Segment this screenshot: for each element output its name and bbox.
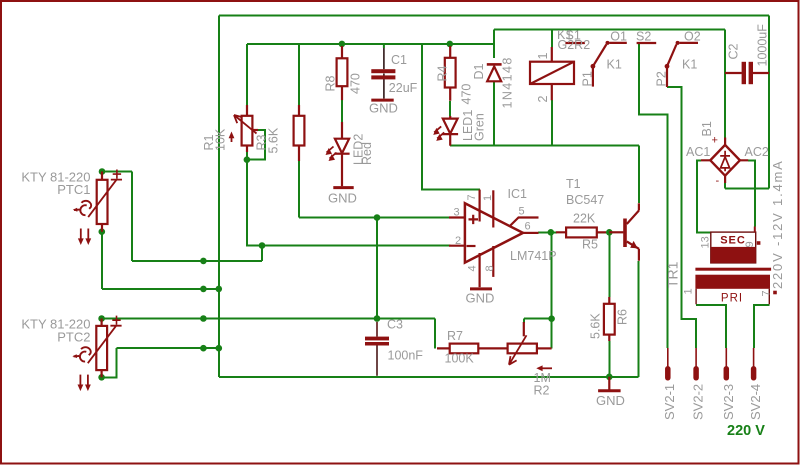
wire PRI pin7 to SV2-4 [754, 305, 769, 348]
wire R5 to base [597, 231, 610, 233]
svg-text:1N4148: 1N4148 [501, 56, 515, 108]
svg-text:C2: C2 [727, 43, 741, 59]
transistor T1 [609, 203, 639, 261]
wire C2 bridge plus vertical [724, 30, 726, 138]
wire opamp pin2 row [262, 245, 451, 247]
svg-text:R2: R2 [534, 384, 550, 398]
svg-text:AC2: AC2 [745, 145, 769, 159]
svg-text:GND: GND [466, 291, 495, 306]
svg-text:7: 7 [466, 194, 478, 200]
LED2 emission arrows [326, 147, 337, 162]
svg-text:R8: R8 [324, 75, 338, 91]
bridge rectifier B1 [701, 138, 748, 184]
svg-text:SEC: SEC [720, 235, 746, 247]
resistor R3 [294, 105, 305, 161]
node PTC1 bottom [99, 228, 106, 235]
wire bridge minus stub [724, 183, 726, 189]
svg-text:SV2-4: SV2-4 [748, 384, 763, 420]
node R1 bottom [244, 156, 251, 163]
svg-text:470: 470 [349, 73, 363, 94]
svg-text:1000uF: 1000uF [756, 24, 770, 67]
svg-text:6: 6 [525, 221, 531, 233]
wire opamp output [538, 231, 557, 233]
svg-text:R7: R7 [447, 329, 463, 343]
wire +12V rail row2 [247, 43, 494, 45]
node wiper junction [548, 315, 555, 322]
wire R6 bottom [608, 341, 610, 377]
svg-text:GND: GND [596, 393, 625, 408]
svg-text:5.6K: 5.6K [267, 127, 281, 153]
resistor R8 [337, 46, 348, 100]
wire feedback row [102, 318, 435, 320]
wire PTC2 bottom jog [102, 348, 117, 377]
node opamp output [548, 229, 555, 236]
svg-text:K1: K1 [682, 58, 697, 72]
resistor R7 [437, 344, 508, 354]
LED LED2 [334, 122, 349, 186]
wire R3 bottom down [298, 161, 300, 218]
wire opamp pin7 supply [422, 44, 480, 190]
svg-text:22uF: 22uF [389, 81, 418, 95]
svg-text:100K: 100K [445, 352, 475, 366]
node row348 b [216, 345, 223, 352]
wire S2 net to SV2-1 [639, 43, 668, 348]
svg-text:R4: R4 [436, 65, 450, 81]
svg-text:2: 2 [536, 96, 550, 103]
svg-text:PTC2: PTC2 [57, 330, 90, 345]
connector pin SV2-2 [695, 348, 697, 378]
ground symbol C1 [371, 99, 393, 102]
wire R1 top [246, 44, 248, 105]
potentiometer R2 [508, 322, 552, 371]
wire wiper row [524, 318, 552, 320]
wire collector vertical [638, 146, 640, 204]
svg-text:T1: T1 [566, 177, 581, 191]
thermistor PTC1 [88, 170, 122, 232]
wire PTC1 bottom down [101, 232, 103, 289]
node PTC2 bottom [98, 374, 105, 381]
node rail R4 [447, 41, 454, 48]
svg-text:22K: 22K [573, 212, 596, 226]
svg-text:GND: GND [369, 101, 398, 116]
svg-text:10K: 10K [214, 128, 228, 151]
PTC1 down arrows [78, 229, 91, 246]
wire AC2 to SEC pin9 [748, 160, 755, 226]
svg-text:220V -12V 1.4mA: 220V -12V 1.4mA [770, 159, 785, 289]
potentiometer R1 [229, 105, 258, 152]
svg-text:PRI: PRI [721, 293, 743, 305]
node PTC1 top [99, 168, 106, 175]
svg-text:IC1: IC1 [508, 187, 528, 201]
wire R3 top [298, 44, 300, 105]
svg-text:-: - [716, 175, 720, 187]
svg-text:8: 8 [484, 265, 496, 271]
ground symbol R6 [598, 377, 621, 391]
svg-text:7: 7 [761, 290, 773, 296]
node fb top [374, 214, 381, 221]
wire PRI pin1 to SV2-3 [696, 305, 726, 348]
svg-text:100nF: 100nF [388, 349, 424, 363]
svg-text:S2: S2 [636, 29, 651, 43]
LED1 emission arrows [433, 126, 444, 140]
svg-text:O1: O1 [610, 29, 627, 43]
wire node A corner down [261, 246, 263, 261]
svg-text:LM741P: LM741P [510, 249, 557, 263]
svg-text:C1: C1 [391, 53, 407, 67]
svg-text:R6: R6 [616, 309, 630, 325]
wire P2 net to SV2-2 [667, 87, 696, 348]
resistor R5 [556, 228, 606, 238]
wire opamp pin3 row [299, 217, 451, 219]
svg-text:O2: O2 [684, 29, 701, 43]
wire PTC2 bottom row [117, 347, 219, 349]
resistor R4 [445, 46, 456, 101]
svg-text:G2R2: G2R2 [558, 38, 591, 52]
node row289 b [216, 286, 223, 293]
wire right 0V vertical [768, 15, 770, 188]
wire PTC1 top vertical [131, 172, 133, 261]
wire to R2 right [551, 319, 553, 349]
svg-text:TR1: TR1 [665, 261, 681, 288]
wire relay pin1 stub [551, 30, 553, 47]
capacitor C3 [365, 322, 389, 376]
transformer TR1 core [695, 268, 771, 271]
relay contact S2-O2-P2 [637, 41, 698, 87]
wire bottom ground rail [219, 376, 639, 378]
svg-text:9: 9 [744, 241, 756, 247]
wire top 0V rail [219, 14, 769, 16]
wire relay pin2 down [551, 100, 553, 146]
svg-text:+: + [712, 135, 718, 147]
svg-text:P1: P1 [581, 71, 595, 86]
svg-text:Red: Red [360, 142, 374, 165]
node row348 a [200, 345, 207, 352]
PTC1 curl symbol [73, 201, 91, 215]
thermistor PTC2 [88, 316, 122, 378]
PTC2 down arrows [78, 375, 91, 392]
wire PTC1 top row [132, 260, 262, 262]
svg-text:AC1: AC1 [686, 145, 710, 159]
wire R6 top [608, 232, 610, 297]
wire +12V row [494, 29, 725, 31]
node pin2 corner [259, 242, 266, 249]
svg-text:BC547: BC547 [566, 193, 604, 207]
connector pin SV2-1 [667, 348, 669, 378]
svg-text:D1: D1 [472, 63, 486, 79]
wire R8 bottom to LED2 [341, 100, 343, 122]
wire left 0V vertical [218, 15, 220, 376]
ground symbol LED2 [333, 186, 353, 189]
resistor R6 [604, 297, 615, 341]
svg-text:3: 3 [454, 207, 460, 219]
transformer TR1 SEC winding [711, 227, 761, 263]
wire output to wiper vertical [551, 232, 553, 318]
wire feedback vertical pin3 to C3 [376, 218, 378, 319]
svg-text:1: 1 [482, 195, 494, 201]
ground symbol IC1 [470, 287, 492, 290]
wire D1 bottom [493, 81, 495, 145]
wire D1 top stub [493, 30, 495, 58]
svg-text:1: 1 [536, 53, 550, 60]
node rail R8 [339, 41, 346, 48]
svg-text:2: 2 [455, 235, 461, 247]
svg-text:SV2-3: SV2-3 [721, 384, 736, 420]
wire PTC1 top stub [102, 171, 132, 173]
svg-text:5.6K: 5.6K [589, 313, 603, 339]
svg-text:SV2-2: SV2-2 [691, 384, 706, 420]
diode D1 [487, 64, 502, 81]
svg-text:470: 470 [460, 84, 474, 105]
svg-text:GND: GND [328, 191, 357, 206]
node PTC2 top [98, 315, 105, 322]
wire R4 bottom to LED1 [449, 101, 451, 116]
connector pin SV2-4 [753, 348, 755, 378]
transformer TR1 PRI winding [695, 275, 776, 305]
node row261 [200, 258, 207, 265]
svg-text:220 V: 220 V [727, 423, 765, 439]
svg-text:1: 1 [683, 288, 695, 294]
wire AC1 to SEC pin13 [697, 160, 711, 232]
node row319 [200, 315, 207, 322]
wire R1 wiper loop [247, 130, 265, 160]
wire collector row [450, 145, 639, 147]
svg-text:13: 13 [700, 236, 712, 248]
node ground rail R6 [606, 374, 613, 381]
wire bridge minus to right vertical [725, 188, 769, 190]
svg-text:4: 4 [467, 265, 479, 271]
op-amp IC1 [449, 190, 539, 288]
wire R1 bottom stub [246, 152, 248, 160]
svg-text:C3: C3 [387, 318, 403, 332]
relay contact S1-O1-P1 [565, 41, 626, 87]
wire wiper stub down [523, 319, 525, 323]
relay coil K1 [530, 47, 574, 100]
wire feedback to R7 [434, 319, 436, 349]
svg-text:5: 5 [519, 206, 525, 218]
node fb bottom [374, 315, 381, 322]
connector pin SV2-3 [725, 348, 727, 378]
svg-text:Gren: Gren [473, 113, 487, 141]
wire emitter vertical [638, 261, 640, 377]
capacitor C1 [371, 44, 395, 99]
svg-text:P2: P2 [655, 71, 669, 86]
svg-text:PTC1: PTC1 [57, 182, 90, 197]
PTC2 curl symbol [72, 347, 90, 361]
capacitor C2 [725, 62, 769, 84]
node row289 a [200, 286, 207, 293]
svg-text:K1: K1 [607, 58, 622, 72]
svg-text:SV2-1: SV2-1 [662, 384, 677, 420]
node R5 right [606, 229, 613, 236]
wire R1 node down [247, 160, 262, 246]
LED LED1 [442, 116, 458, 146]
wire PTC1 bottom row [102, 288, 219, 290]
svg-text:R5: R5 [582, 238, 598, 252]
